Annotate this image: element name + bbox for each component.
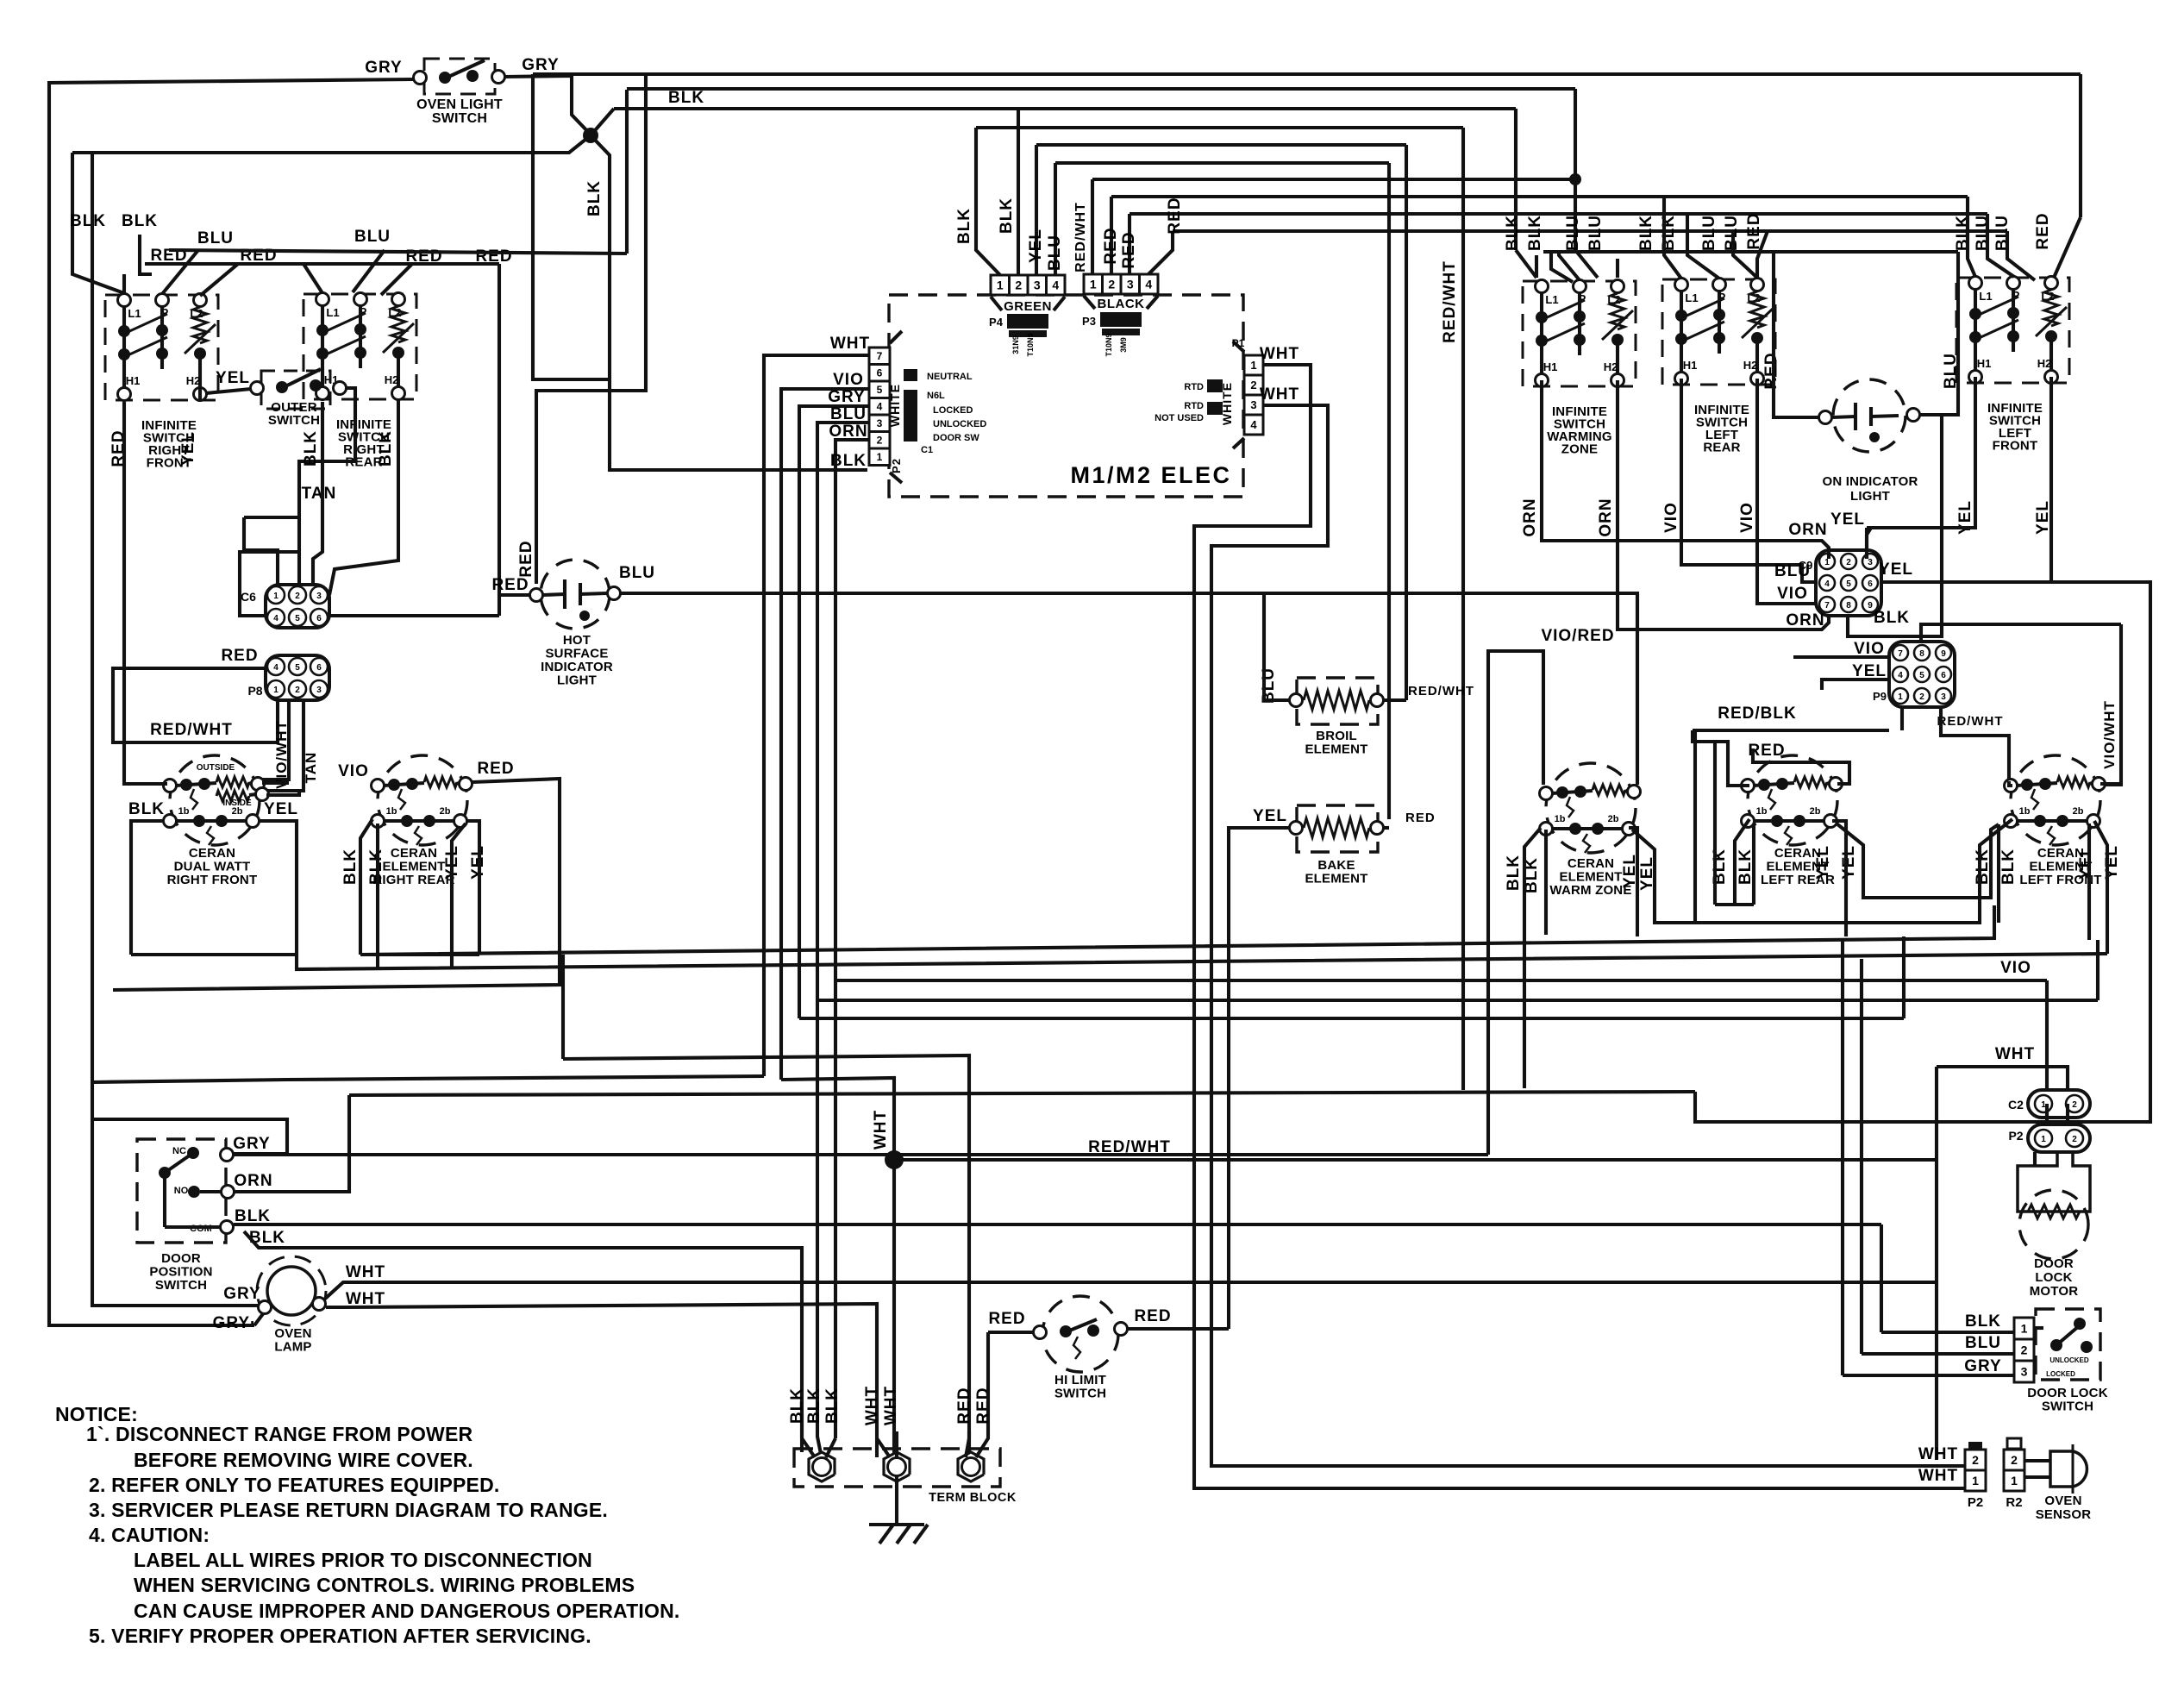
hot light dot: [579, 611, 590, 621]
svg-text:BLK: BLK: [377, 430, 395, 467]
P3 tiny text2: [1119, 337, 1128, 353]
RED label leftrear: [1748, 742, 1785, 760]
hi limit left terminal: [1034, 1326, 1047, 1339]
svg-text:NC: NC: [172, 1146, 186, 1156]
connector P9: [1889, 642, 1955, 707]
door position switch box: [137, 1139, 226, 1243]
svg-text:7: 7: [1898, 649, 1903, 659]
rr bl vert2: [376, 824, 379, 969]
P1 RTD blob2: [1207, 402, 1223, 415]
right front contact c: [194, 348, 206, 360]
warming zone terminal H2: [1611, 374, 1624, 387]
P2 board label: [890, 458, 903, 473]
right front contact a1: [118, 325, 130, 337]
svg-text:WHT: WHT: [1260, 385, 1299, 404]
BLK wire below C9: [1848, 528, 1942, 636]
svg-text:BLU: BLU: [1586, 215, 1605, 251]
wz bl vert2: [1544, 830, 1548, 935]
lrc loop riser: [1713, 742, 1717, 905]
hot surface indicator light outline: [541, 560, 610, 629]
outer switch box: [261, 371, 330, 409]
motor C2 link2: [2066, 1104, 2069, 1124]
mid bus y1181 right up: [1902, 936, 1906, 1018]
svg-text:RED: RED: [1405, 811, 1436, 825]
svg-text:RED/WHT: RED/WHT: [1073, 202, 1088, 272]
bus y440 jog: [533, 74, 610, 379]
C6 pin4 wire left: [240, 552, 299, 616]
P4 pin 3: [1028, 275, 1047, 295]
YEL rotated lf H1: [1956, 500, 1974, 535]
svg-text:VIO: VIO: [1777, 585, 1808, 603]
svg-text:WHT: WHT: [1260, 345, 1299, 363]
ground stroke 2: [897, 1525, 911, 1544]
RED/WHT label P3 pin1: [1073, 202, 1088, 272]
svg-text:WHT: WHT: [1918, 1445, 1958, 1463]
BLK label top bus: [668, 89, 704, 107]
right front label H1: [126, 374, 141, 387]
wz bl diag: [1524, 828, 1541, 1088]
svg-text:YEL: YEL: [179, 431, 197, 466]
hot light bar 1: [563, 579, 566, 609]
svg-text:H1: H1: [1977, 357, 1992, 370]
hot light left terminal: [530, 589, 543, 602]
svg-text:BLK: BLK: [1637, 215, 1655, 251]
svg-text:GRY: GRY: [522, 56, 559, 74]
door sw NO stub: [200, 1190, 221, 1193]
BLU rotated feed label: [1586, 215, 1605, 251]
bus ORN x969: [834, 457, 837, 1438]
RED funnel vert: [986, 1332, 990, 1414]
right rear leg L2: [397, 354, 400, 387]
svg-text:CAN CAUSE IMPROPER AND DANGERO: CAN CAUSE IMPROPER AND DANGEROUS OPERATI…: [134, 1600, 679, 1622]
YEL wire into P9: [1822, 680, 1889, 690]
svg-text:VIO: VIO: [1854, 640, 1885, 658]
notice line 1: [86, 1423, 473, 1445]
diag to left front L2: [2054, 217, 2081, 278]
UNLOCKED tiny: [933, 419, 986, 429]
on light bar1: [1854, 403, 1857, 430]
sw2 H2 drop: [329, 400, 398, 595]
BLK drop x2182: [1880, 1224, 1883, 1332]
GRY label right of oven light switch: [522, 56, 559, 74]
BLK rotated feed label: [1504, 215, 1522, 251]
C9 pin3 up: [1865, 528, 1868, 559]
top bus line 11: [1543, 250, 1958, 254]
svg-text:VIO/WHT: VIO/WHT: [273, 720, 290, 789]
right rear leg L1: [321, 334, 324, 351]
warmzone feed 1: [1535, 255, 1538, 278]
left front lever a: [1977, 297, 2018, 316]
element left front top link: [2017, 783, 2057, 786]
diag warmzone BLK: [1516, 250, 1536, 278]
element left rear top dot2: [1776, 778, 1788, 790]
P2 funnel lines: [890, 331, 902, 483]
element left rear bottom-right terminal: [1824, 815, 1837, 828]
warming zone terminal P: [1574, 280, 1586, 293]
svg-text:2b: 2b: [1608, 814, 1619, 824]
on light element: [1832, 416, 1855, 417]
dual watt right front thermal squiggle2: [207, 826, 214, 845]
mid bus A: [360, 905, 1994, 955]
left front label H1: [1977, 357, 1992, 370]
svg-text:4: 4: [1052, 279, 1059, 292]
door lock sw contact mid: [2050, 1339, 2062, 1351]
right rear terminal H2: [392, 387, 405, 400]
svg-text:5: 5: [1846, 579, 1851, 589]
svg-text:L1: L1: [1545, 293, 1558, 306]
warming zone terminal L1: [1536, 280, 1549, 293]
leftrear feed L2b: [1757, 231, 1768, 278]
svg-text:OVENLAMP: OVENLAMP: [274, 1326, 311, 1355]
dual watt right front bottom dot1: [193, 815, 205, 827]
BLU bus riser x727: [625, 90, 629, 254]
svg-text:9: 9: [1941, 649, 1946, 659]
ORN label door sw: [234, 1172, 272, 1190]
right front terminal H1: [118, 388, 131, 401]
outer switch contact 1: [276, 381, 288, 393]
WHITE rotated label P2: [888, 384, 902, 427]
svg-text:TAN: TAN: [302, 485, 337, 503]
dual watt right front bottom dot2: [216, 815, 228, 827]
svg-text:LOCKED: LOCKED: [933, 405, 973, 416]
oven lamp WHT wire2: [326, 1304, 877, 1457]
warming zone L1 lead: [1540, 292, 1543, 312]
element warm zone 1b: [1555, 814, 1566, 824]
element left front 1b: [2019, 806, 2031, 817]
right front contact a2: [156, 324, 168, 336]
broil resistor: [1304, 691, 1369, 710]
VIO/RED wire: [1486, 651, 1543, 785]
broil right wire: [1384, 698, 1406, 702]
svg-text:VIO/RED: VIO/RED: [1541, 627, 1614, 645]
top bus line 2 (to warming zone): [627, 87, 1575, 91]
TAN jog: [244, 516, 299, 519]
left front terminal H2: [2045, 371, 2058, 384]
ORN label left C9: [1788, 521, 1827, 539]
bake right terminal: [1371, 822, 1384, 835]
connector P2 doorlock: [2028, 1124, 2090, 1152]
BLK rotated lf1: [1974, 849, 1992, 885]
P1 pin1 WHT wire: [1194, 365, 1965, 1488]
right front lever b: [126, 337, 167, 356]
element left rear top resistor: [1794, 777, 1827, 787]
svg-text:BLK: BLK: [955, 208, 973, 244]
right front name: [141, 418, 197, 471]
RED drop from top line: [536, 74, 646, 584]
svg-text:2: 2: [2021, 1343, 2028, 1357]
dw bottom-right wire: [259, 821, 297, 955]
svg-text:1b: 1b: [386, 806, 397, 817]
svg-text:6: 6: [1868, 579, 1873, 589]
left rear leg P2: [1718, 341, 1721, 354]
element warm zone thermal squiggle2: [1583, 834, 1590, 853]
element warm zone bottom dot2: [1592, 823, 1604, 835]
P1 pin 1: [1244, 355, 1263, 375]
BLK rotated feed label: [1954, 215, 1972, 251]
right front leg L1: [122, 335, 126, 352]
ceran element right rear outline: [378, 755, 467, 845]
svg-text:BLK: BLK: [1737, 849, 1755, 885]
svg-text:8: 8: [1846, 601, 1851, 611]
warming zone leg L1: [1540, 321, 1543, 338]
P1 pin 4: [1244, 415, 1263, 435]
BLK rotated term1c: [823, 1387, 842, 1424]
element left front bottom-right terminal: [2087, 815, 2100, 828]
P4 pin2 wire: [1017, 109, 1020, 275]
R2 sensor label: [2006, 1495, 2022, 1510]
right rear label L1: [326, 306, 339, 319]
door sw ORN terminal: [222, 1186, 235, 1199]
lf H2 drop: [2049, 377, 2053, 583]
right front label L1: [128, 307, 141, 320]
RED bus left: [145, 262, 499, 266]
NO tiny: [174, 1186, 189, 1196]
P4 pin 4: [1047, 275, 1066, 295]
svg-text:4: 4: [1250, 418, 1257, 431]
svg-text:1b: 1b: [178, 806, 190, 817]
svg-text:RED: RED: [1120, 231, 1138, 268]
warming zone lever b: [1543, 323, 1585, 342]
left rear contact b1: [1675, 333, 1687, 345]
RED label bake: [1405, 811, 1436, 825]
broil element name: [1305, 729, 1367, 757]
mid bus y1181: [799, 1017, 1904, 1020]
right front resistor: [193, 307, 207, 343]
oven light switch right terminal: [492, 71, 505, 84]
svg-text:C2: C2: [2008, 1098, 2024, 1112]
door lock sw contact top: [2074, 1318, 2086, 1330]
C6 label: [241, 590, 256, 604]
P2 pin7 WHT wire: [764, 355, 869, 386]
P8 pin2 drop TAN: [267, 700, 304, 791]
right rear contact b1: [316, 348, 329, 360]
VIO/WHT rotated right: [2101, 700, 2118, 769]
svg-text:P8: P8: [247, 684, 262, 698]
svg-text:1b: 1b: [1756, 806, 1768, 817]
GRY label dls: [1964, 1357, 2001, 1375]
svg-text:BLK: BLK: [235, 1207, 271, 1225]
element right rear bottom-right terminal: [454, 815, 467, 828]
RTD tiny 1: [1184, 382, 1204, 392]
svg-text:ORN: ORN: [1521, 498, 1539, 536]
YEL label bake: [1253, 807, 1287, 825]
drop x2413 (left front L2 RED): [2079, 74, 2082, 217]
svg-text:3: 3: [2021, 1365, 2028, 1379]
svg-text:4. CAUTION:: 4. CAUTION:: [89, 1524, 210, 1546]
svg-text:RED: RED: [491, 576, 529, 594]
RED bus drop x579: [498, 264, 501, 616]
warming zone contact a1: [1536, 311, 1548, 323]
WHT rotated term2b: [882, 1386, 900, 1425]
right front label L2: [190, 307, 203, 320]
dual watt right front top link: [176, 783, 216, 786]
element right rear top-left terminal: [372, 780, 385, 792]
oven lamp GRY wire2: [92, 152, 259, 1306]
door sw COM leg: [165, 1225, 220, 1229]
bake left terminal: [1290, 822, 1303, 835]
on light right lead: [1920, 252, 1958, 415]
svg-text:GRY: GRY: [365, 59, 402, 77]
oven lamp left terminal: [259, 1301, 272, 1314]
element left front top dot1: [2021, 779, 2033, 791]
sensor P2 top tab: [1968, 1442, 1982, 1449]
door sw COM terminal: [221, 1221, 234, 1234]
P3 funnel: [1084, 296, 1158, 309]
svg-text:WHT: WHT: [882, 1386, 900, 1425]
element warm zone bottom dot1: [1569, 823, 1581, 835]
oven sensor P2 pin 2: [1965, 1450, 1986, 1470]
NOT USED tiny: [1155, 413, 1204, 423]
svg-text:BLK: BLK: [341, 849, 360, 885]
connector C6: [266, 585, 329, 628]
P2 pin4 GRY wire: [799, 406, 869, 423]
broil left wire: [1264, 593, 1290, 700]
right front terminal P: [156, 294, 169, 307]
BLU wire dls: [1862, 1352, 2014, 1356]
element left rear 1b: [1756, 806, 1768, 817]
P3 pin 2: [1103, 274, 1122, 294]
svg-text:BLK: BLK: [1505, 855, 1523, 891]
P2 pin2 ORN wire: [835, 440, 869, 457]
BLK drop to P2 pin1: [610, 379, 867, 470]
on indicator light outline: [1833, 379, 1906, 452]
hi limit squiggle: [1073, 1337, 1080, 1359]
BLK rotated sw2 H1: [302, 430, 320, 467]
svg-text:2: 2: [1846, 558, 1851, 567]
border left+top: [49, 79, 415, 1325]
ORN rotated wz H2: [1597, 498, 1615, 536]
NEUTRAL tiny: [927, 372, 973, 382]
hi limit right terminal: [1115, 1323, 1128, 1336]
door lock sw contact bot: [2081, 1341, 2093, 1353]
RED/WHT long wire: [894, 1158, 1937, 1162]
left front leg P2: [2012, 339, 2015, 352]
right rear terminal L2: [392, 293, 405, 306]
BLK label P2pin1: [830, 452, 867, 470]
mid bus line4: [349, 1092, 1695, 1095]
svg-text:YEL: YEL: [1840, 845, 1858, 880]
WHT rotated term2a: [863, 1386, 881, 1425]
BLU rotated feed label: [1993, 215, 2012, 251]
ceran element right rear name: [372, 846, 454, 887]
svg-text:2: 2: [1919, 692, 1924, 702]
motor C2 link: [2045, 1104, 2049, 1124]
ORN label below C9: [1786, 611, 1824, 629]
top bus line 7: [1092, 178, 1575, 181]
svg-text:2: 2: [2011, 1453, 2018, 1467]
element left rear 2b: [1810, 806, 1821, 817]
warming zone leg P2: [1578, 342, 1581, 355]
BLK wire door sw2: [244, 1231, 802, 1452]
svg-text:5: 5: [1919, 671, 1924, 680]
RED rotated on light: [1762, 352, 1780, 389]
warming zone resistor: [1611, 293, 1624, 329]
svg-text:BLK: BLK: [128, 800, 165, 818]
svg-text:INSIDE: INSIDE: [222, 799, 252, 808]
BLK bus to sw2: [140, 235, 152, 274]
oven lamp WHT wire1: [324, 1282, 1937, 1300]
wz br wire: [1629, 828, 1637, 936]
door sw lever: [165, 1153, 193, 1173]
hi limit switch outline: [1042, 1296, 1118, 1372]
svg-text:8: 8: [1919, 649, 1924, 659]
warming zone label P: [1579, 292, 1586, 305]
RED feed label 2: [240, 247, 277, 265]
ORN rotated wz H1: [1521, 498, 1539, 536]
dual watt right front top-right terminal: [252, 778, 265, 791]
broil right terminal: [1371, 694, 1384, 707]
element warm zone 2b: [1608, 814, 1619, 824]
svg-text:BLU: BLU: [1774, 562, 1811, 580]
RED feed label 3: [405, 247, 442, 266]
VIO drop to C2: [2045, 980, 2049, 1090]
left rear leg H1: [1680, 341, 1683, 373]
P1 tiny label: [1232, 337, 1245, 349]
P1 pin 3: [1244, 395, 1263, 415]
YEL rotated lfc1: [2077, 845, 2095, 880]
svg-text:H2: H2: [2037, 357, 2052, 370]
on light left terminal: [1819, 411, 1832, 424]
svg-text:GRY: GRY: [1964, 1357, 2001, 1375]
svg-text:RED: RED: [955, 1387, 973, 1424]
bake element box: [1297, 805, 1378, 852]
element left front 2b: [2073, 806, 2084, 817]
svg-text:1: 1: [1250, 359, 1256, 372]
C6 pin6 wire right: [329, 614, 499, 617]
ORN label P2pin2: [829, 423, 867, 441]
BLU label left C9: [1774, 562, 1811, 580]
P2 board pin 6: [869, 365, 890, 382]
svg-text:UNLOCKED: UNLOCKED: [2049, 1356, 2089, 1364]
warmzone feed L2 diag: [1616, 259, 1619, 278]
svg-text:1: 1: [273, 686, 278, 695]
top bus line 10: [1173, 229, 2007, 233]
right rear contact a1: [316, 324, 329, 336]
WHT label P1 pin1: [1260, 345, 1299, 363]
top bus line 5: [1036, 143, 1406, 147]
feed diag sw2 L2: [381, 264, 412, 295]
svg-text:WHT: WHT: [1995, 1045, 2035, 1063]
left front terminal L1: [1969, 277, 1982, 290]
element warm zone bottom-right terminal: [1623, 823, 1636, 836]
term3 funnel a: [966, 1431, 969, 1457]
BLU label P4 pin4: [1046, 235, 1064, 271]
svg-text:2: 2: [1250, 379, 1256, 391]
door lock switch pin 2: [2014, 1339, 2034, 1361]
rr bl diag: [360, 819, 372, 955]
svg-text:4: 4: [1824, 579, 1830, 589]
BLK label below C9: [1874, 609, 1910, 627]
left front variable arrow: [2036, 307, 2067, 336]
svg-text:NEUTRAL: NEUTRAL: [927, 372, 973, 382]
svg-text:1b: 1b: [1555, 814, 1566, 824]
svg-text:L1: L1: [1685, 291, 1698, 304]
element right rear top dot1: [388, 779, 400, 791]
RED rotated term3b: [974, 1387, 992, 1424]
warmzone feed extra: [1551, 252, 1573, 282]
BLK rotated wz1: [1505, 855, 1523, 891]
element warm zone top link: [1552, 791, 1593, 793]
BLK feed label 1: [70, 212, 106, 230]
door lock switch pin1: [0, 0, 1, 1]
svg-text:1b: 1b: [2019, 806, 2031, 817]
right rear leg P: [359, 333, 362, 350]
left front leg L2: [2049, 338, 2053, 371]
left rear label P: [1718, 291, 1726, 304]
svg-text:DOOR SW: DOOR SW: [933, 433, 979, 443]
right front terminal H2: [194, 388, 207, 401]
svg-text:RED/WHT: RED/WHT: [1441, 260, 1459, 343]
